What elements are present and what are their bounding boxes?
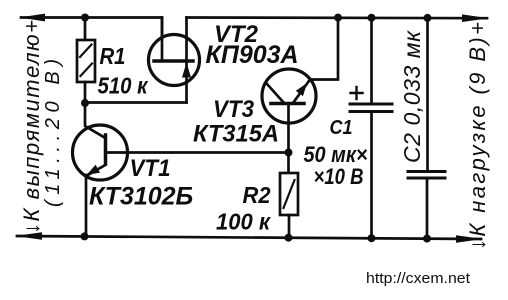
junction dot C2 bottom on rail xyxy=(423,235,431,243)
wire VT3 emitter to top rail xyxy=(310,18,338,80)
svg-text:VT3: VT3 xyxy=(213,96,255,123)
capacitor C1 (polarized 50uF) xyxy=(350,18,392,239)
junction dot R1 top on rail xyxy=(81,14,89,22)
svg-text:КП903А: КП903А xyxy=(206,41,299,69)
svg-text:↓К нагрузке (9 В)+: ↓К нагрузке (9 В)+ xyxy=(465,22,490,250)
svg-text:VT1: VT1 xyxy=(130,155,171,182)
wire bottom rail (common) xyxy=(17,236,481,239)
junction dot C1 top on rail xyxy=(368,14,376,22)
svg-text:КТ3102Б: КТ3102Б xyxy=(89,183,193,211)
resistor R2 xyxy=(280,153,298,238)
node A junction dot (R1 / VT2 gate / VT1 collector) xyxy=(81,99,89,107)
svg-text:×10 В: ×10 В xyxy=(314,164,364,189)
wire VT2 gate to node A xyxy=(85,101,187,104)
wire VT1 emitter to bottom rail xyxy=(85,175,88,236)
wire top rail left segment (input +) xyxy=(21,18,162,61)
svg-text:R1: R1 xyxy=(100,43,126,69)
transistor VT1 KT3102B xyxy=(73,104,128,180)
svg-text:100 к: 100 к xyxy=(216,209,271,235)
svg-text:http://cxem.net: http://cxem.net xyxy=(366,270,471,287)
svg-text:R2: R2 xyxy=(243,182,271,208)
svg-text:510 к: 510 к xyxy=(98,73,149,99)
junction dot VT3 emitter branch on rail xyxy=(334,14,342,22)
junction dot VT1 emitter on bottom rail xyxy=(81,232,89,240)
transistor VT3 KT315A xyxy=(262,69,316,153)
junction dot C2 top on rail xyxy=(424,14,432,22)
junction dot C1 bottom on rail xyxy=(368,234,376,242)
wire top rail right segment (output +) xyxy=(187,16,488,19)
junction dot R2 bottom on rail xyxy=(285,234,293,242)
svg-text:С2 0,033 мк: С2 0,033 мк xyxy=(399,30,425,163)
arrow right end of top rail (to load +) xyxy=(462,14,489,22)
arrow left end of bottom rail xyxy=(15,232,42,240)
svg-text:С1: С1 xyxy=(330,117,353,139)
node B junction dot (VT1 base / VT3 base / R2) xyxy=(285,149,293,157)
resistor R1 xyxy=(77,18,95,104)
arrow right end of bottom rail xyxy=(456,235,483,243)
transistor VT2 KP903A (JFET) xyxy=(149,18,200,103)
arrow left end of top rail (to rectifier +) xyxy=(19,14,45,22)
capacitor C2 (0.033uF) xyxy=(408,18,445,239)
wire VT1 base to node B xyxy=(106,151,289,154)
svg-text:КТ315А: КТ315А xyxy=(193,121,279,148)
